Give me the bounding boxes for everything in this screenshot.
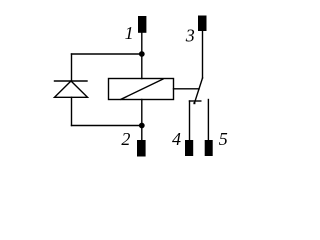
switch arm (movable contact) bbox=[195, 78, 203, 103]
node B junction dot bbox=[139, 123, 145, 129]
svg-text:1: 1 bbox=[125, 23, 134, 43]
wire pin5 lead (NO contact) bbox=[207, 100, 209, 141]
svg-text:5: 5 bbox=[219, 129, 228, 149]
svg-text:2: 2 bbox=[121, 129, 130, 149]
relay coil K1 body bbox=[109, 79, 174, 100]
diode D1 cathode bar bbox=[55, 80, 88, 82]
wire coil bottom to pin2 bbox=[141, 100, 143, 141]
wire pin3 lead bbox=[202, 31, 204, 78]
wire diode branch lower vertical bbox=[71, 97, 73, 125]
switch arm contact tip dot bbox=[193, 102, 195, 104]
diode D1 triangle bbox=[55, 81, 88, 97]
wire top horizontal to diode branch bbox=[72, 53, 142, 55]
wire diode branch upper vertical bbox=[71, 54, 73, 81]
terminal pin 2 bbox=[137, 140, 146, 157]
NC stationary contact horizontal bbox=[190, 100, 201, 102]
terminal pin 1 bbox=[138, 16, 146, 33]
terminal pin 3 bbox=[198, 16, 207, 32]
svg-text:3: 3 bbox=[185, 26, 195, 46]
wire bottom horizontal to node B bbox=[72, 125, 142, 127]
wire pin4 lead bbox=[189, 101, 191, 140]
svg-text:4: 4 bbox=[172, 129, 181, 149]
terminal pin 5 bbox=[205, 140, 213, 156]
node A junction dot bbox=[139, 51, 145, 57]
relay coil K1 diagonal bbox=[121, 79, 163, 99]
wire pin1 to coil top (node A vertical) bbox=[141, 33, 143, 79]
wire coil output to contact arm bbox=[174, 88, 200, 90]
terminal pin 4 bbox=[185, 140, 193, 156]
